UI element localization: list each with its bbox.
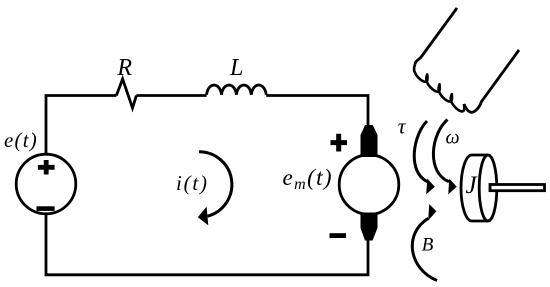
stator field winding coil bbox=[414, 65, 464, 112]
current arrow i(t) arc bbox=[199, 152, 232, 217]
svg-text:J: J bbox=[465, 172, 478, 199]
stator field winding right lead bbox=[464, 50, 519, 112]
stator field winding left lead bbox=[415, 8, 457, 65]
voltage source e(t) bbox=[16, 154, 76, 214]
motor bottom brush terminal bbox=[361, 213, 378, 241]
plus sign of source bbox=[38, 160, 55, 175]
minus sign of source bbox=[37, 206, 55, 211]
speed arrow omega arc bbox=[433, 120, 449, 182]
svg-text:τ: τ bbox=[398, 114, 407, 139]
damping arrow B arc bbox=[412, 218, 437, 280]
svg-text:ω: ω bbox=[445, 127, 459, 149]
resistor R bbox=[116, 79, 136, 108]
motor armature circle bbox=[339, 155, 399, 215]
current arrowhead bbox=[198, 207, 209, 226]
svg-text:i(t): i(t) bbox=[176, 171, 209, 195]
wire: left vertical + top wire segment from source to resistor bbox=[46, 96, 116, 154]
svg-text:B: B bbox=[422, 235, 434, 256]
inertia disc right face ellipse bbox=[479, 155, 497, 221]
damping arrowhead bbox=[428, 204, 436, 221]
svg-text:R: R bbox=[116, 55, 132, 81]
svg-text:em(t): em(t) bbox=[283, 165, 334, 193]
wire: top wire segment between resistor and inductor bbox=[136, 94, 206, 97]
speed arrowhead bbox=[448, 179, 457, 195]
svg-text:e(t): e(t) bbox=[4, 128, 38, 152]
inductor L bbox=[207, 85, 267, 95]
torque arrow tau arc bbox=[414, 121, 427, 182]
wire: bottom return wire from motor to source bbox=[46, 215, 368, 275]
wire: top wire segment from inductor to top-right corner, down to motor bbox=[266, 96, 368, 129]
motor shaft bbox=[490, 185, 545, 191]
torque arrowhead bbox=[426, 179, 435, 195]
motor top brush terminal bbox=[361, 125, 378, 157]
inertia disc body with left face arc bbox=[461, 155, 488, 221]
plus sign of motor bbox=[331, 134, 348, 152]
svg-text:L: L bbox=[229, 55, 243, 81]
minus sign of motor bbox=[330, 233, 347, 238]
